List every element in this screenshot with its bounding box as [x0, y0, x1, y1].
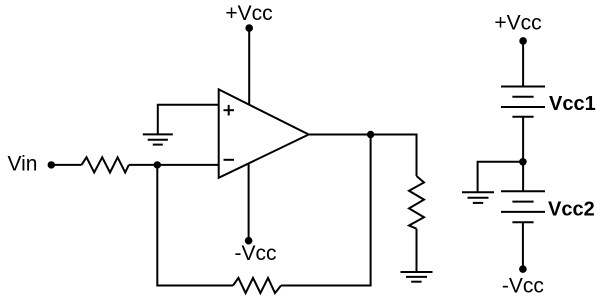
svg-text:+Vcc: +Vcc	[494, 12, 541, 35]
wire +Vcc supply to op-amp V+ pin	[248, 28, 250, 105]
ground G2	[401, 272, 433, 282]
ground G3	[462, 192, 494, 203]
wire op-amp output	[309, 134, 417, 136]
wire R3 to ground	[416, 229, 418, 272]
resistor R2 feedback	[233, 278, 281, 293]
battery Vcc1	[501, 87, 545, 117]
wire node A to op-amp inverting input	[157, 164, 218, 166]
op-amp U1	[219, 89, 309, 177]
node C midpoint junction dot	[519, 158, 527, 166]
svg-text:Vin: Vin	[8, 152, 38, 175]
svg-text:-Vcc: -Vcc	[235, 242, 277, 265]
wire +Vcc right to battery Vcc1	[522, 41, 524, 87]
wire node B to load resistor	[371, 135, 417, 177]
wire Vin to R1	[51, 164, 81, 166]
resistor R3 load	[409, 176, 424, 229]
node -Vcc right terminal dot	[519, 265, 527, 273]
wire feedback: node B down and left along bottom rail to R2	[281, 135, 371, 286]
wire battery Vcc1 to battery Vcc2	[522, 117, 524, 192]
wire op-amp non-inverting input to ground	[158, 105, 219, 134]
resistor R1	[82, 157, 129, 172]
node +Vcc terminal dot	[245, 24, 253, 32]
svg-text:+Vcc: +Vcc	[225, 2, 272, 25]
node A junction dot	[154, 161, 161, 168]
node B output junction dot	[367, 131, 374, 138]
node +Vcc right terminal dot	[519, 37, 527, 45]
wire op-amp V- pin to -Vcc supply	[248, 163, 250, 240]
wire node C to ground G3	[478, 162, 523, 192]
wire R2 along bottom rail and up to node A	[157, 165, 233, 286]
battery Vcc2	[501, 191, 545, 222]
svg-text:-Vcc: -Vcc	[502, 274, 544, 297]
svg-text:Vcc1: Vcc1	[549, 93, 596, 115]
svg-text:Vcc2: Vcc2	[548, 199, 595, 221]
wire R1 to inverting input node	[129, 164, 158, 166]
ground G1	[143, 134, 173, 144]
wire battery Vcc2 to -Vcc right	[522, 222, 524, 269]
node -Vcc terminal dot	[245, 237, 253, 245]
node Vin terminal dot	[48, 161, 55, 168]
